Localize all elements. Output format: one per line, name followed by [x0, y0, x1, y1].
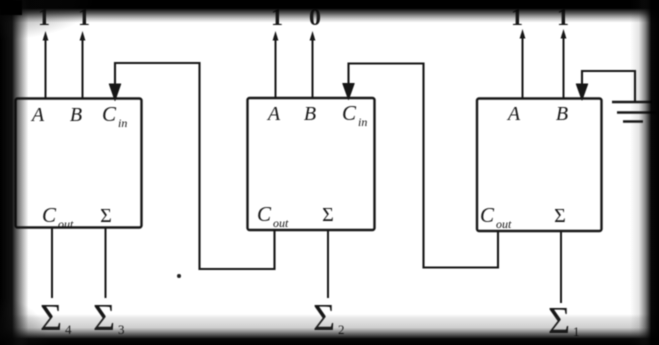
svg-text:B: B [556, 103, 568, 125]
wire carry Cout U2 to Cin U1 [109, 63, 274, 269]
wire carry Cout U3 to Cin U2 [343, 64, 498, 268]
svg-text:Σ: Σ [554, 205, 566, 227]
svg-text:C: C [257, 202, 272, 226]
output label Sigma1 [548, 300, 580, 342]
stray ink speck [177, 274, 181, 278]
wire output Sum of U2 to sum bit S2 [327, 231, 329, 299]
wire input A of U1 [43, 31, 49, 98]
svg-text:A: A [506, 103, 521, 125]
svg-text:out: out [58, 217, 74, 231]
wire input B of U1 [80, 31, 86, 98]
svg-text:in: in [358, 115, 367, 129]
full adder U2 (middle) [248, 98, 375, 230]
wire output Sum of U3 to sum bit S1 [560, 232, 562, 304]
svg-text:C: C [480, 203, 495, 227]
svg-text:in: in [118, 116, 127, 130]
pin label Cout of U1 [42, 203, 74, 231]
output label Sigma3 [93, 297, 125, 339]
svg-text:C: C [342, 101, 357, 125]
svg-text:Σ: Σ [100, 205, 112, 227]
wire input B of U2 [310, 31, 316, 98]
pin label Cin of U1 [102, 102, 127, 130]
svg-text:C: C [102, 102, 117, 126]
wire Cin U3 to ground [576, 71, 635, 101]
svg-text:A: A [266, 103, 281, 125]
output label Sigma4 [40, 297, 72, 339]
svg-text:Σ: Σ [322, 204, 334, 226]
svg-text:C: C [42, 203, 57, 227]
ground symbol [612, 102, 656, 122]
output label Sigma2 [313, 297, 345, 339]
full adder U3 (right, LSB) [477, 99, 602, 232]
pin label Cout of U2 [257, 202, 289, 230]
svg-text:B: B [304, 103, 316, 125]
svg-text:B: B [70, 104, 82, 126]
wire input A of U3 [520, 29, 526, 98]
pin label Cin of U2 [342, 101, 367, 129]
pin label Cout of U3 [480, 203, 512, 231]
wire output Sum of U1 to sum bit S3 [105, 228, 107, 298]
wire output Cout of U1 to sum bit S4 [51, 228, 53, 298]
svg-text:out: out [273, 216, 289, 230]
wire input B of U3 [561, 29, 567, 98]
svg-text:out: out [496, 217, 512, 231]
svg-text:A: A [30, 104, 45, 126]
wire input A of U2 [273, 31, 279, 98]
full adder U1 (left, MSB) [16, 99, 142, 228]
